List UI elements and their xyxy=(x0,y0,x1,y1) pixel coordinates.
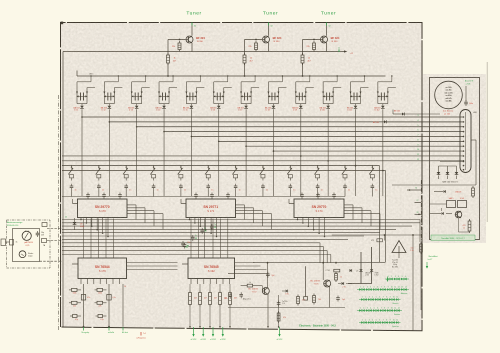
wire R50 down xyxy=(189,307,191,327)
node group 12 band xyxy=(382,170,384,172)
arrowhead group 8 right xyxy=(277,92,279,94)
wire group 7 bracket xyxy=(241,103,251,105)
diode varactor D12 xyxy=(381,106,385,109)
resistor R52 xyxy=(209,291,212,307)
wire collector T2 to edge xyxy=(268,26,270,36)
bus UB xyxy=(77,75,386,77)
pin U5.3 xyxy=(203,279,205,285)
arrowhead group 12 right xyxy=(387,92,389,94)
wire LED feed b xyxy=(371,247,373,284)
resistor R53 xyxy=(219,291,222,307)
rail group 9 lower xyxy=(306,87,314,89)
component D173 xyxy=(350,269,352,272)
green tick stair 3 xyxy=(204,230,206,232)
capacitor electrolytic bl 1 xyxy=(70,315,81,318)
wire R51 down xyxy=(199,307,201,327)
trimmer capacitor C11 arrow xyxy=(350,95,360,97)
connector J1 body xyxy=(460,110,471,173)
arrowhead group 3 right xyxy=(141,92,143,94)
wire group 1 drop xyxy=(81,109,83,196)
wire group 1 feed right xyxy=(86,88,88,104)
IC U5 SN 76545 xyxy=(188,258,235,279)
wire switch 12 down xyxy=(371,190,373,197)
arrowhead group 2 left xyxy=(103,92,105,94)
wire lower fan 1 xyxy=(62,219,420,221)
node group 8 fan xyxy=(273,150,275,152)
wire U2 right route 2 xyxy=(236,207,254,209)
pin U2.5 xyxy=(210,218,212,234)
svg-text:b a77: b a77 xyxy=(428,259,433,261)
wire mid rail 273 xyxy=(228,273,269,275)
component meter TA xyxy=(42,239,47,243)
diode varactor D10 xyxy=(326,106,330,109)
wire R52 down xyxy=(209,307,211,327)
wire fan line 1 xyxy=(82,116,464,118)
green stub c xyxy=(415,213,422,215)
wire group 5 drop xyxy=(190,109,192,196)
wire group 10 drop xyxy=(327,109,329,196)
wire R50 up xyxy=(189,284,191,291)
LED row A tick xyxy=(387,277,389,282)
wire group 9 drop xyxy=(300,109,302,196)
wire switch 10 down xyxy=(317,190,319,197)
meter top resistor xyxy=(42,223,47,227)
rail group 1 lower xyxy=(87,87,95,89)
box SAS b xyxy=(458,201,467,208)
trimmer capacitor C8 plates xyxy=(271,93,273,101)
wire U5 right route 3 xyxy=(235,269,267,271)
LED row C xyxy=(359,299,401,301)
capacitor above IC 3 xyxy=(118,193,122,199)
switch S4 xyxy=(150,165,155,181)
capacitor 338 xyxy=(336,296,340,302)
node group 11 band xyxy=(355,165,357,167)
wire emitter Q1 xyxy=(191,43,193,52)
pin U5.2 xyxy=(196,279,198,285)
wire switch 9 down xyxy=(289,190,291,197)
wire group 1 feed left xyxy=(76,82,78,104)
arrow netz xyxy=(426,262,428,268)
svg-text:µA 256 B: µA 256 B xyxy=(24,241,33,244)
connector J1 inner xyxy=(465,112,467,170)
pin U4.5 xyxy=(106,279,108,285)
switch S12 xyxy=(369,165,374,181)
trimmer capacitor C12 plates xyxy=(380,93,382,101)
meter dashed link mid xyxy=(47,240,62,242)
resistor center xyxy=(277,311,280,323)
trimmer capacitor C12 arrow xyxy=(378,95,388,97)
left dashdot margin line xyxy=(58,95,60,330)
wire U4 right route 1 xyxy=(127,262,178,264)
pin U3.2 xyxy=(302,218,304,223)
diode D174 xyxy=(282,290,285,292)
pin U3.5 xyxy=(318,218,320,234)
wire group 8 drop xyxy=(272,109,274,196)
LED row E xyxy=(359,322,401,324)
capacitor switch 2 xyxy=(97,184,101,190)
pin U1.1 xyxy=(80,218,82,220)
wire bias to bus Q1 xyxy=(167,63,169,76)
switch S11 xyxy=(342,165,347,181)
svg-text:aufhellts: aufhellts xyxy=(108,331,114,334)
wire U1 right route 3 xyxy=(127,210,154,212)
meter dashed link bottom xyxy=(40,260,63,262)
rail group 2 upper xyxy=(104,81,118,83)
pin U1.6 xyxy=(107,218,109,237)
wire fan line 6 xyxy=(219,140,464,142)
wire group 8 feed right xyxy=(277,88,279,104)
capacitor electrolytic bl 2 xyxy=(96,315,107,318)
wire U4 right route 3 xyxy=(127,269,178,271)
trimmer capacitor C11 plates xyxy=(353,93,355,101)
pin U3.3 xyxy=(307,218,309,227)
wire LED feed a xyxy=(360,252,362,284)
node group 11 fan xyxy=(355,165,357,167)
meter dashed link top xyxy=(47,228,62,230)
wire group 4 feed left xyxy=(158,82,160,104)
trimmer capacitor C9 arrow xyxy=(296,95,306,97)
node group 12 fan xyxy=(382,170,384,172)
node group 2 fan xyxy=(109,121,111,123)
wire switch 3 down xyxy=(125,190,127,197)
wire group 12 bracket xyxy=(378,103,388,105)
capacitor C172 xyxy=(266,272,270,278)
wire R51 up xyxy=(199,284,201,291)
wire group 9 feed right xyxy=(305,88,307,104)
pin dot fan 7 xyxy=(463,145,465,147)
capacitor above IC 7 xyxy=(300,193,304,199)
diode varactor D11 xyxy=(354,106,358,109)
transistor Q5 BC238 xyxy=(324,280,331,287)
IC U4 left pin xyxy=(72,263,78,265)
IC U2 left pin xyxy=(181,203,186,205)
resistor R76 xyxy=(468,219,471,233)
transistor Q7 xyxy=(455,211,462,218)
transistor Q3 BF 324 xyxy=(321,36,328,43)
trimmer capacitor C7 plates xyxy=(244,93,246,101)
IC U3 SN 29770 xyxy=(294,199,344,218)
wire IC2-IC5 link 3 xyxy=(204,219,206,259)
wire U2 right route 4 xyxy=(236,213,272,215)
wire group 1 bracket xyxy=(77,103,87,105)
rail group 6 upper xyxy=(214,81,228,83)
diode D180 xyxy=(359,269,362,271)
wire group 3 feed right xyxy=(141,88,143,104)
wire fan line 3 xyxy=(137,126,464,128)
wire sas rail xyxy=(434,184,476,186)
svg-text:af 5292: af 5292 xyxy=(220,339,226,341)
capacitor switch 5 xyxy=(179,184,183,190)
green tick stair 4 xyxy=(214,226,216,228)
arrowhead group 10 left xyxy=(322,92,324,94)
wire switch 11 down xyxy=(344,190,346,197)
pin dot fan 13 xyxy=(463,169,465,171)
component box bl 1 xyxy=(81,295,85,301)
capacitor above IC 1 xyxy=(86,193,90,199)
wire collector T1 to edge xyxy=(191,26,193,36)
wire IC1-IC4 link 3 xyxy=(98,219,100,259)
diode lamp D72 xyxy=(456,166,458,172)
wire column under IC4 1 xyxy=(83,284,85,327)
pin U5.6 xyxy=(222,279,224,285)
wire group 12 drop xyxy=(382,109,384,196)
diode D18 horizontal xyxy=(384,120,386,123)
diode varactor D3 xyxy=(135,106,139,109)
capacitor switch 11 xyxy=(343,184,347,190)
arrowhead group 5 right xyxy=(195,92,197,94)
wire panel top stub xyxy=(465,86,467,101)
pin list circle xyxy=(435,81,463,109)
rail arrow end xyxy=(344,50,347,52)
svg-text:(-Frequenz): (-Frequenz) xyxy=(137,337,146,340)
arrowhead group 12 left xyxy=(377,92,379,94)
wire U2 right route 1 xyxy=(236,204,245,206)
transistor Q4 BC238 xyxy=(262,288,269,295)
svg-text:3930-014.10: 3930-014.10 xyxy=(7,225,19,227)
resistor base Q2 xyxy=(255,41,258,52)
wire Q5 collector xyxy=(322,263,324,280)
wire lamp D70 xyxy=(438,176,440,180)
wire ic3 right run xyxy=(332,234,421,236)
pin dot fan 11 xyxy=(463,161,465,163)
green tick bl 3 xyxy=(122,327,124,331)
arrowhead group 5 left xyxy=(185,92,187,94)
resistor bottomleft b1 xyxy=(69,301,81,304)
wire fan line 7 xyxy=(246,145,463,147)
wire U5 right route 2 xyxy=(235,265,261,267)
switch S5 xyxy=(178,165,183,181)
resistor R75 xyxy=(472,186,475,198)
LED row A xyxy=(385,278,409,280)
wire bias to bus Q3 xyxy=(302,63,304,76)
pin dot fan 12 xyxy=(463,165,465,167)
svg-text:AF abst: AF abst xyxy=(122,331,128,334)
pin U4.3 xyxy=(93,279,95,285)
wire mid column xyxy=(305,266,307,296)
trimmer capacitor C3 plates xyxy=(134,93,136,101)
pin U2.2 xyxy=(194,218,196,223)
wire group 2 feed right xyxy=(113,88,115,104)
left border vertical bus xyxy=(62,52,64,327)
IC U5 left pin xyxy=(182,263,188,265)
trimmer capacitor C4 arrow xyxy=(159,95,169,97)
node group 9 fan xyxy=(300,155,302,157)
green tick C140 xyxy=(185,246,188,248)
wire lower fan 4 xyxy=(62,228,396,230)
arrowhead group 11 left xyxy=(350,92,352,94)
green pin drop 4 xyxy=(222,327,224,336)
resistor base Q3 xyxy=(313,41,316,52)
resistor 314 xyxy=(313,294,316,305)
switch S1 xyxy=(68,165,73,181)
switch S2 xyxy=(96,165,101,181)
pin dot fan 9 xyxy=(463,155,465,157)
arrowhead group 10 right xyxy=(332,92,334,94)
resistor R175 horizontal xyxy=(334,269,340,272)
pin U1.4 xyxy=(96,218,98,230)
wire group 7 feed right xyxy=(250,88,252,104)
component LTA xyxy=(377,239,383,242)
node group 7 fan xyxy=(245,145,247,147)
switch S3 xyxy=(123,165,128,181)
node group 4 fan xyxy=(163,131,165,133)
rail group 7 upper xyxy=(241,81,255,83)
arrowhead group 4 left xyxy=(158,92,160,94)
arrowhead group 4 right xyxy=(168,92,170,94)
wire lamp rail xyxy=(439,165,457,167)
wire stage lower 1 xyxy=(62,242,320,244)
wire R52 up xyxy=(209,284,211,291)
node group 6 fan xyxy=(218,141,220,143)
pin U4.1 xyxy=(80,279,82,285)
resistor Q4 base xyxy=(247,284,252,287)
LED row D xyxy=(357,310,402,312)
wire U2 right route 3 xyxy=(236,210,263,212)
wire column 123 xyxy=(122,284,124,327)
trimmer capacitor C2 arrow xyxy=(104,95,114,97)
pin U5.1 xyxy=(190,279,192,285)
wire Q4 base b xyxy=(253,285,263,287)
wire R54 up xyxy=(229,284,231,291)
wire R53 down xyxy=(219,307,221,327)
trimmer capacitor C4 plates xyxy=(162,93,164,101)
wire IC1-IC4 link 5 xyxy=(113,219,115,259)
arrowhead group 9 left xyxy=(295,92,297,94)
wire group 2 feed left xyxy=(103,82,105,104)
wire group 4 feed right xyxy=(168,88,170,104)
rail group 1 upper xyxy=(77,81,91,83)
svg-text:0,25: 0,25 xyxy=(26,245,30,247)
wire U3 right route 2 xyxy=(344,207,362,209)
wire right column a xyxy=(412,235,414,331)
wire group 8 feed left xyxy=(267,82,269,104)
wire IC2-IC5 link 4 xyxy=(212,219,214,259)
rail group 6 lower xyxy=(224,87,232,89)
capacitor switch 4 xyxy=(152,184,156,190)
pin dot fan 3 xyxy=(463,126,465,128)
rail group 3 lower xyxy=(142,87,150,89)
rail group 9 upper xyxy=(296,81,310,83)
wire connector right link xyxy=(471,139,476,141)
wire bias drop Q1 xyxy=(167,40,169,56)
trimmer capacitor C1 arrow xyxy=(77,95,87,97)
resistor meter left xyxy=(10,240,14,246)
wire IC2-IC5 link 1 xyxy=(190,219,192,259)
pin U2.6 xyxy=(216,218,218,237)
wire vertical x385 xyxy=(385,171,387,263)
capacitor C174 xyxy=(239,292,243,298)
wire switch 7 down xyxy=(235,190,237,197)
pin U1.5 xyxy=(102,218,104,234)
pin dot fan 10 xyxy=(463,160,465,162)
resistor bias Q2 xyxy=(243,53,246,65)
resistor R80 xyxy=(420,242,423,254)
pin dot fan 1 xyxy=(463,116,465,118)
node tick 2 xyxy=(268,23,270,26)
wire fan line 9 xyxy=(62,155,464,157)
pin U5.4 xyxy=(209,279,211,285)
corner mark xyxy=(61,22,64,25)
wire group 6 bracket xyxy=(214,103,224,105)
wire switch 4 down xyxy=(153,190,155,197)
wire bias drop Q2 xyxy=(244,40,246,56)
pin dot fan 6 xyxy=(463,141,465,143)
pin U2.4 xyxy=(205,218,207,230)
capacitor stair 2 xyxy=(191,235,195,241)
meter box border xyxy=(7,220,51,268)
wire group 2 bracket xyxy=(104,103,114,105)
divider dash-dot A xyxy=(420,180,422,242)
diode D76 xyxy=(430,213,442,215)
diode D181 xyxy=(370,269,373,271)
wire fan line 12 xyxy=(62,170,386,172)
wire R53 up xyxy=(219,284,221,291)
rail group 5 upper xyxy=(186,81,200,83)
svg-text:Tuner: Tuner xyxy=(186,11,201,17)
wire lower fan drop right xyxy=(419,220,421,243)
pin U2.3 xyxy=(199,218,201,227)
rail group 4 lower xyxy=(169,87,177,89)
wire U1 right route 2 xyxy=(127,207,145,209)
green tick stair 1 xyxy=(187,245,189,247)
capacitor meter xyxy=(36,231,40,237)
switch S6 xyxy=(205,165,210,181)
capacitor center xyxy=(277,301,281,307)
wire group 6 feed right xyxy=(223,88,225,104)
component box bl 2 xyxy=(107,295,111,301)
arrowhead group 2 right xyxy=(113,92,115,94)
trimmer capacitor C1 plates xyxy=(80,93,82,101)
rail tick green xyxy=(338,49,340,52)
wire group 7 feed left xyxy=(240,82,242,104)
IC U3 left pin xyxy=(289,203,294,205)
rail group 8 upper xyxy=(268,81,282,83)
pin dot fan 4 xyxy=(463,131,465,133)
resistor bottomleft a2 xyxy=(95,288,107,291)
capacitor switch 10 xyxy=(316,184,320,190)
capacitor C173 xyxy=(228,293,232,299)
arrowhead group 7 left xyxy=(240,92,242,94)
pin U1.3 xyxy=(91,218,93,227)
green stub a xyxy=(407,189,421,191)
box mid column xyxy=(304,297,308,301)
wire group 12 feed left xyxy=(377,82,379,104)
diode varactor D1 xyxy=(80,106,84,109)
capacitor stair 3 xyxy=(200,228,204,234)
resistor R54 xyxy=(229,291,232,307)
capacitor above IC 9 xyxy=(332,193,336,199)
diode D17 horizontal xyxy=(402,112,404,115)
switch S9 xyxy=(287,165,292,181)
pin U4.2 xyxy=(86,279,88,285)
green tick stair 2 xyxy=(195,237,197,239)
svg-text:7-4: 7-4 xyxy=(143,333,146,335)
wire column under IC4 2 xyxy=(108,284,110,327)
pin dot fan 8 xyxy=(463,150,465,152)
wire Q5 emitter xyxy=(329,287,331,308)
resistor R50 xyxy=(189,291,192,307)
IC U1 SN 29770 xyxy=(78,199,128,218)
diode varactor D5 xyxy=(190,106,194,109)
wire group 6 drop xyxy=(218,109,220,196)
wire Q4 base xyxy=(241,285,248,287)
trimmer capacitor C2 plates xyxy=(107,93,109,101)
green tick bl 2 xyxy=(108,327,110,331)
node tick 3 xyxy=(326,23,328,26)
arrowhead group 11 right xyxy=(360,92,362,94)
wire group 3 bracket xyxy=(132,103,142,105)
crystal symbol Y1 xyxy=(392,241,406,253)
